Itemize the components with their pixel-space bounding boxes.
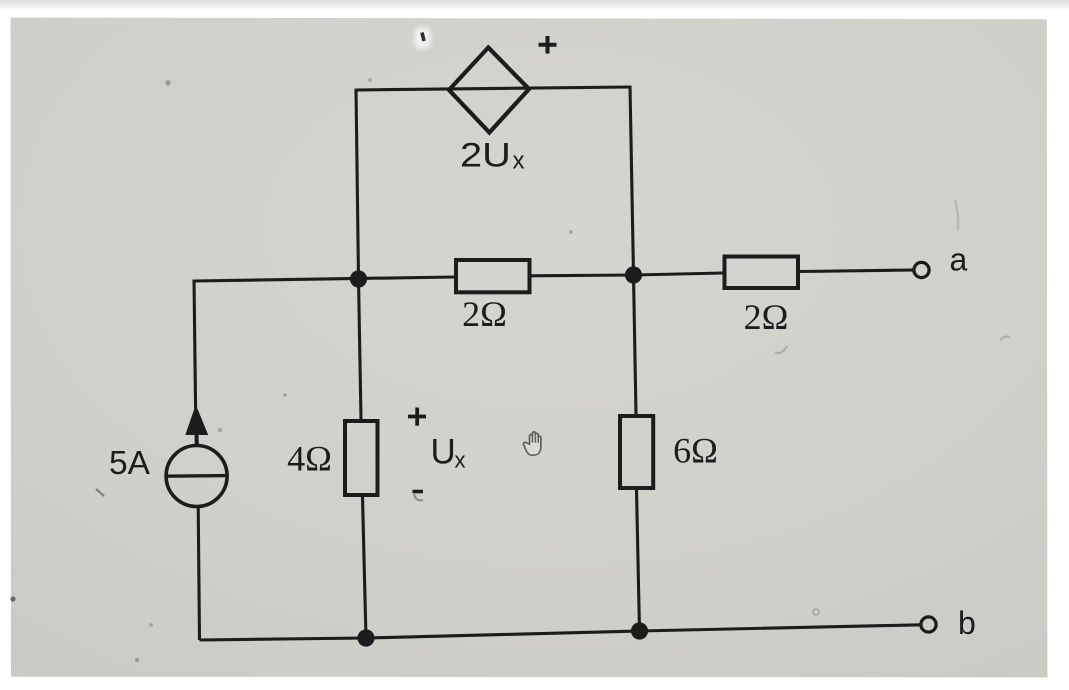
svg-text:b: b bbox=[958, 605, 976, 641]
wire 6ohm lower bbox=[637, 490, 640, 631]
svg-text:x: x bbox=[513, 148, 525, 175]
label Ux bbox=[431, 433, 466, 473]
resistor 2ohm middle bbox=[456, 260, 530, 292]
plus sign of 2Ux bbox=[539, 36, 557, 54]
current source 5A circle bbox=[165, 446, 229, 507]
wire left branch lower bbox=[198, 507, 199, 641]
wire middle right bbox=[531, 273, 634, 277]
svg-text:a: a bbox=[950, 242, 968, 278]
label 2ohm right bbox=[744, 297, 789, 337]
current source 5A stem bbox=[195, 434, 199, 447]
label 5A bbox=[109, 445, 151, 482]
plus sign of Ux bbox=[408, 408, 426, 426]
terminal a bbox=[914, 262, 929, 277]
label 4ohm bbox=[287, 439, 332, 479]
wire left branch upper bbox=[194, 280, 196, 410]
svg-text:2Ω: 2Ω bbox=[744, 297, 789, 337]
node B (top right junction) bbox=[625, 266, 642, 283]
node A (top left junction) bbox=[350, 270, 367, 287]
svg-text:6Ω: 6Ω bbox=[673, 431, 718, 471]
wire to terminal a bbox=[800, 270, 914, 272]
wire 4ohm upper bbox=[359, 279, 362, 419]
svg-text:x: x bbox=[455, 448, 466, 473]
svg-text:2Ω: 2Ω bbox=[462, 294, 507, 334]
label 2Ux bbox=[460, 136, 525, 174]
hand cursor bbox=[524, 432, 541, 455]
resistor 4ohm bbox=[345, 421, 378, 495]
minus sign of Ux bbox=[413, 490, 424, 494]
label 6ohm bbox=[673, 431, 718, 471]
wire bottom bbox=[200, 625, 922, 640]
wire 4ohm lower bbox=[363, 497, 367, 638]
wire top-left vertical bbox=[356, 89, 359, 279]
dependent source 2Ux bbox=[449, 48, 529, 133]
resistor 2ohm right bbox=[725, 257, 799, 289]
wire node2 to right resistor bbox=[634, 273, 724, 275]
wire top-right vertical bbox=[630, 86, 634, 275]
wire top horizontal bbox=[356, 87, 630, 90]
wire 6ohm upper bbox=[634, 275, 637, 414]
svg-text:U: U bbox=[431, 433, 456, 472]
node C (bottom left junction) bbox=[357, 629, 374, 646]
label a bbox=[950, 242, 968, 278]
current source 5A arrow bbox=[186, 406, 208, 435]
label 2ohm middle bbox=[462, 294, 507, 334]
svg-text:4Ω: 4Ω bbox=[287, 439, 332, 479]
label b bbox=[958, 605, 976, 641]
wire middle left bbox=[194, 277, 454, 281]
svg-text:5A: 5A bbox=[109, 445, 151, 482]
svg-text:2U: 2U bbox=[460, 136, 511, 174]
node D (bottom right junction) bbox=[631, 622, 648, 639]
resistor 6ohm bbox=[620, 416, 653, 488]
terminal b bbox=[921, 617, 936, 632]
